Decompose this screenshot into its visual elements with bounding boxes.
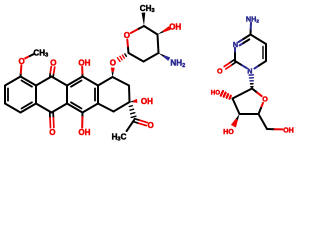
C9 hydroxyl bold wedge bond	[130, 101, 134, 103]
daunosamine ring C3-C2 bond	[144, 53, 159, 62]
svg-text:HO: HO	[211, 90, 220, 97]
arabinose C4'-C3' bond	[240, 113, 259, 115]
acetyl C=O double bond	[134, 122, 139, 124]
arabinose O-C4' bond	[261, 103, 263, 108]
arabinose C3'-C2' bond	[233, 99, 240, 115]
N1 to C1' hashed wedge bond (anomeric)	[251, 86, 253, 88]
ring B aromatic double bond (top-left edge)	[71, 81, 82, 87]
svg-text:NH2: NH2	[170, 59, 185, 69]
C5 methyl bold wedge bond	[142, 13, 146, 27]
daunosamine ring C4-C3 bond	[158, 35, 159, 54]
cytosine C4-NH2 bond	[250, 29, 252, 34]
svg-text:H3C: H3C	[112, 132, 127, 142]
quinone ring C of daunorubicin	[36, 77, 52, 86]
daunosamine ring C5-C4 bond	[144, 26, 158, 35]
cytosine N1-C6 bond	[254, 66, 259, 69]
arabinose C1'-O bond	[252, 89, 257, 93]
C3 amino bold wedge bond	[159, 53, 165, 57]
cytosine C6-C5 double bond	[265, 44, 267, 61]
cytosine C5-C4 bond	[251, 35, 267, 45]
ring B top phenol C-O bond	[81, 74, 83, 77]
ring B aromatic double bond (bottom-left edge)	[71, 102, 82, 108]
svg-text:O: O	[49, 128, 55, 137]
C4 hydroxyl bold wedge bond	[158, 31, 164, 35]
ring D aromatic double bond (top-right edge)	[22, 81, 33, 87]
svg-text:O: O	[148, 121, 154, 130]
cytosine C2-N1 bond	[235, 61, 242, 65]
C7 glycosidic bold wedge bond (ring A to O)	[112, 72, 114, 77]
svg-text:CH3: CH3	[140, 4, 155, 14]
ring D aromatic double bond (bottom-right edge)	[22, 102, 33, 108]
cytosine C2=O double bond	[230, 60, 235, 63]
svg-text:O: O	[217, 67, 223, 76]
quinone bottom carbonyl C=O double bond	[49, 113, 51, 118]
benzene ring D of daunorubicin aglycone	[21, 77, 37, 86]
methoxy O-CH3 bond	[25, 56, 30, 58]
C3' hydroxyl bold wedge bond	[236, 114, 240, 120]
svg-text:OH: OH	[169, 23, 181, 32]
svg-text:OH: OH	[141, 97, 153, 106]
C4'-C5' bond	[259, 114, 268, 129]
acetyl C-CH3 bond	[127, 120, 134, 131]
cyclohexane ring A of daunorubicin	[98, 77, 113, 86]
ring D aromatic double bond (left edge)	[7, 88, 9, 100]
svg-text:O: O	[19, 57, 25, 66]
svg-text:OH: OH	[78, 59, 90, 68]
svg-text:OH: OH	[78, 128, 90, 137]
svg-text:NH2: NH2	[246, 14, 259, 24]
C5'-OH bond	[267, 128, 275, 130]
daunosamine ring C1-O bond	[127, 46, 130, 53]
cytosine N3=C4 double bond	[239, 39, 244, 42]
svg-text:O: O	[50, 58, 56, 67]
ring B bottom phenol C-O bond	[81, 113, 83, 118]
daunosamine ring O-C5 bond	[131, 29, 139, 33]
methoxy C-O bond (ring D to O)	[20, 73, 22, 76]
cytosine N3-C2 bond	[234, 48, 236, 53]
C1 glycosidic hashed wedge bond	[125, 54, 127, 56]
arabinose C2'-C1' bond	[233, 89, 253, 99]
ring B aromatic double bond (right edge)	[94, 88, 96, 100]
benzene ring B of daunorubicin (phenol ring)	[67, 77, 83, 86]
C2' hydroxyl hashed wedge bond	[230, 96, 231, 99]
quinone top carbonyl C=O double bond	[52, 73, 55, 76]
C9 to acetyl hashed wedge bond	[129, 105, 132, 108]
svg-text:CH3: CH3	[33, 49, 48, 59]
svg-text:HO: HO	[223, 127, 234, 136]
daunosamine ring C2-C1 bond	[129, 53, 144, 62]
svg-text:O: O	[110, 58, 116, 67]
svg-text:OH: OH	[283, 125, 294, 134]
